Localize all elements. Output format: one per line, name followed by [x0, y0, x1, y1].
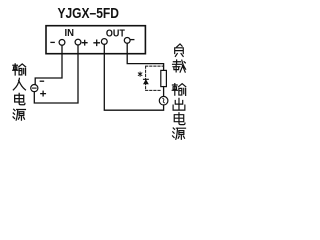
- label minus OUT: [131, 39, 134, 41]
- minus inside source: [33, 87, 37, 89]
- terminal IN+ circle: [75, 39, 81, 45]
- hanzi left column: shu ru dian yuan (input power): [13, 64, 26, 120]
- hanzi ru: [13, 78, 25, 90]
- wire OUT+ down to bottom rail: [104, 44, 163, 110]
- svg-text:IN: IN: [64, 27, 74, 39]
- terminal OUT- circle: [124, 38, 130, 44]
- hanzi zai: [173, 60, 186, 72]
- terminal IN- circle: [59, 40, 65, 46]
- wire source bottom to IN+: [34, 45, 78, 103]
- terminal OUT+ circle: [101, 39, 107, 45]
- hanzi shu (left): [13, 64, 26, 75]
- module box U1: [46, 26, 145, 54]
- svg-text:OUT: OUT: [106, 27, 125, 39]
- hanzi dian (left): [15, 93, 25, 104]
- diode D1: [144, 78, 149, 80]
- hanzi dian (right): [174, 113, 185, 125]
- hanzi right column: fu zai (load): [173, 44, 186, 72]
- wire OUT- to load: [127, 43, 163, 70]
- asterisk mark: [138, 72, 142, 76]
- wire load to meter: [163, 87, 165, 97]
- battery source B1 circle: [31, 85, 38, 92]
- hanzi yuan (right): [173, 128, 186, 139]
- label minus IN: [51, 41, 54, 43]
- label plus OUT: [94, 40, 99, 45]
- hanzi fu: [175, 44, 184, 56]
- hanzi chu: [173, 98, 185, 110]
- resistor load RL: [161, 70, 167, 86]
- meter M1 circle: [159, 96, 168, 105]
- hanzi right column: shu chu dian yuan (output power): [172, 84, 186, 140]
- label plus at source: [41, 91, 46, 96]
- hanzi shu (right): [172, 84, 186, 96]
- dashed box optional diode: [146, 66, 164, 90]
- wire IN- down-left to source: [35, 45, 62, 84]
- label plus IN: [82, 40, 87, 45]
- svg-text:YJGX–5FD: YJGX–5FD: [57, 5, 119, 22]
- hanzi yuan (left): [13, 109, 25, 120]
- label minus at source: [40, 80, 43, 82]
- squiggle inside meter: [163, 98, 165, 103]
